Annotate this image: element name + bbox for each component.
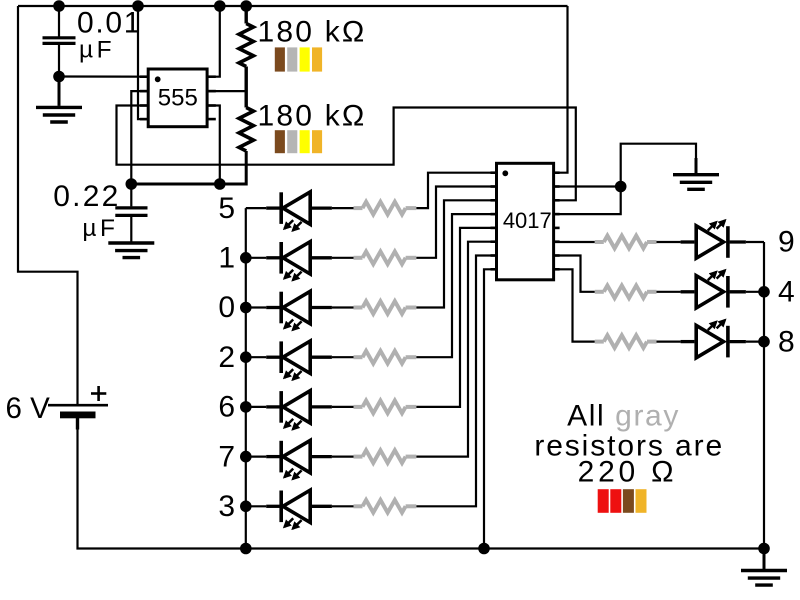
- svg-text:0.22: 0.22: [53, 180, 120, 213]
- resistor 220 ohm gray row 4: [595, 290, 604, 294]
- resistor 220 ohm gray row 3: [332, 505, 354, 507]
- wire top rail down to 4017 VDD pin: [554, 6, 568, 173]
- junction dot timing node left: [126, 178, 138, 190]
- svg-text:4: 4: [778, 276, 795, 309]
- wire 4017 output to LED row 0: [416, 200, 496, 307]
- resistor 220 ohm gray row 2: [332, 356, 354, 358]
- svg-text:3: 3: [218, 490, 235, 523]
- svg-text:5: 5: [218, 192, 235, 225]
- resistor R1 180 kOhm: [239, 24, 253, 67]
- resistor 220 ohm gray row 0: [332, 306, 354, 308]
- resistor 220 ohm gray row 9: [595, 240, 604, 244]
- wire 4017 output 8 to resistor: [554, 269, 595, 341]
- LED D8 with wires: [657, 341, 681, 343]
- wire R1 top lead: [244, 6, 247, 24]
- junction dot 555 VCC: [214, 0, 226, 12]
- junction dot reset: [132, 0, 144, 12]
- resistor 220 ohm gray row 1: [332, 257, 354, 259]
- wire 4017 output to LED row 3: [416, 256, 496, 507]
- junction dot VSS at bottom rail: [478, 543, 490, 555]
- junction dot bus at bottom rail: [240, 543, 252, 555]
- wire LED cathode bus: [245, 208, 247, 548]
- LED D3 with wires: [240, 501, 252, 513]
- svg-text:0: 0: [218, 291, 235, 324]
- wire 4017 enable pin tie: [554, 187, 621, 215]
- wire R1-R2 junction lead: [244, 67, 247, 108]
- wire 555 output to 4017 clock: [117, 106, 576, 201]
- junction dot R1 top: [240, 0, 252, 12]
- battery B1 6 V: [48, 404, 108, 407]
- svg-text:6 V: 6 V: [6, 392, 51, 425]
- svg-text:9: 9: [778, 226, 795, 259]
- wire 555 VCC pin to top rail: [207, 6, 220, 77]
- LED D2 with wires: [240, 351, 252, 363]
- svg-text:7: 7: [218, 440, 235, 473]
- junction dot right rail bottom: [758, 543, 770, 555]
- ground for C2: [108, 241, 154, 244]
- resistor 220 ohm gray row 7: [332, 456, 354, 458]
- junction dot reset-enable tie: [615, 181, 627, 193]
- wire 4017 VSS pin to bottom rail: [484, 269, 497, 548]
- wire 4017 output to LED row 2: [416, 214, 496, 357]
- svg-text:1: 1: [218, 242, 235, 275]
- wire 4017 output to LED row 7: [416, 242, 496, 457]
- svg-text:8: 8: [778, 325, 795, 358]
- wire R2 bottom to timing node: [131, 151, 246, 184]
- color bands 220 ohm red red brown gold: [598, 489, 609, 513]
- wire 555 reset to VCC: [138, 6, 148, 119]
- svg-text:180 kΩ: 180 kΩ: [258, 100, 367, 133]
- LED D4 with wires: [657, 291, 681, 293]
- wire top positive rail: [18, 5, 568, 7]
- U1 pin1 dot: [155, 76, 161, 82]
- LED D9 with wires: [657, 241, 681, 243]
- IC U2 4017 decade counter box with pins: [497, 163, 554, 279]
- resistor 220 ohm gray row 8: [595, 340, 604, 344]
- wire 555 threshold pin down to timing node: [207, 106, 220, 185]
- junction dot C1 bottom: [53, 71, 65, 83]
- ground for C1: [58, 77, 61, 106]
- U2 pin1 dot: [502, 170, 508, 176]
- svg-text:6: 6: [218, 391, 235, 424]
- wire battery negative to bottom rail: [78, 429, 765, 549]
- svg-text:180 kΩ: 180 kΩ: [258, 16, 367, 49]
- LED D7 with wires: [240, 451, 252, 463]
- wire 4017 output to LED row 6: [416, 228, 496, 407]
- svg-text:µF: µF: [82, 215, 118, 242]
- svg-text:555: 555: [158, 84, 198, 111]
- capacitor C2 0.22 uF: [130, 184, 132, 206]
- wire 4017 output to LED row 1: [416, 187, 496, 258]
- wire 4017 output 4 to resistor: [554, 256, 595, 292]
- LED D6 with wires: [240, 401, 252, 413]
- svg-text:All gray: All gray: [567, 399, 680, 432]
- wire C1 top lead: [58, 6, 60, 37]
- color bands R1 brown gray yellow gold: [275, 47, 285, 71]
- ground for bottom rail: [763, 549, 766, 570]
- svg-text:4017: 4017: [503, 208, 552, 233]
- wire C1 to 555 pin1: [59, 75, 148, 77]
- wire 4017 output to LED row 5: [416, 173, 496, 208]
- LED D0 with wires: [240, 302, 252, 314]
- wire 555 discharge pin to R1-R2 junction: [207, 90, 246, 92]
- op-amp-style IC U1 555 timer box with pins: [148, 69, 207, 127]
- junction dot threshold: [214, 178, 226, 190]
- wire right rail: [763, 242, 765, 549]
- wire tie node to ground symbol: [621, 144, 696, 187]
- resistor 220 ohm gray row 5: [332, 207, 354, 209]
- wire 4017 output 9 to resistor: [554, 241, 595, 243]
- wire trigger riser: [131, 91, 148, 184]
- svg-text:220 Ω: 220 Ω: [578, 456, 678, 489]
- ground for 4017 reset: [695, 158, 698, 173]
- svg-text:2: 2: [218, 341, 235, 374]
- svg-text:0.01: 0.01: [77, 7, 142, 40]
- battery plus sign: [91, 392, 106, 395]
- LED D1 with wires: [240, 252, 252, 264]
- LED D5 with wires: [246, 207, 266, 209]
- resistor R2 180 kOhm: [239, 108, 253, 152]
- svg-text:µF: µF: [79, 37, 115, 64]
- wire left rail from top to battery: [18, 6, 78, 404]
- resistor 220 ohm gray row 6: [332, 406, 354, 408]
- junction dot C1 top: [53, 0, 65, 12]
- capacitor C1 0.01 uF: [43, 36, 76, 39]
- wire 4017 reset pin to ground node: [554, 185, 621, 187]
- color bands R2 brown gray yellow gold: [275, 130, 285, 153]
